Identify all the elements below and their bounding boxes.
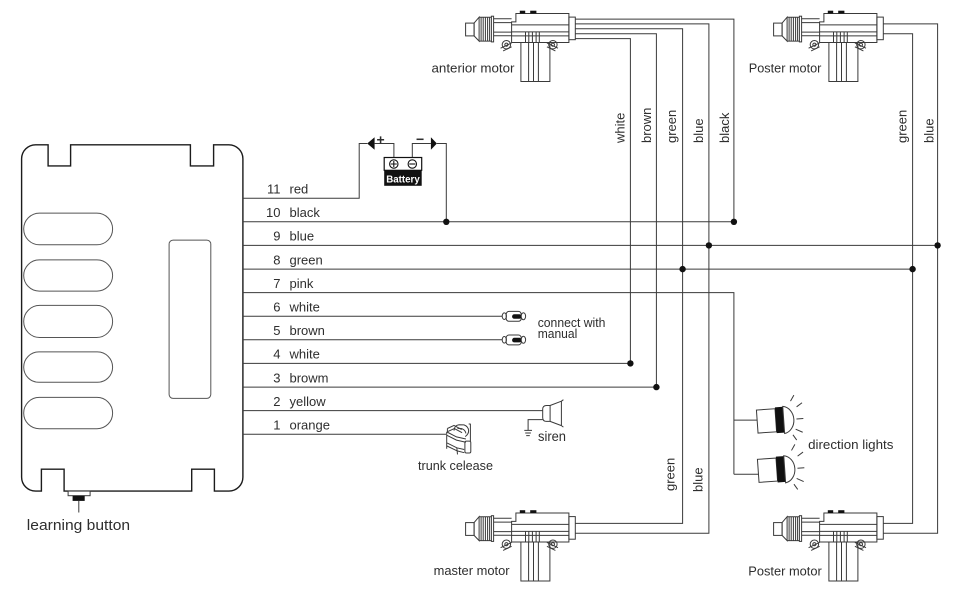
label wire 2: [273, 394, 326, 409]
svg-text:green: green: [664, 110, 679, 143]
poster motor top wire blue: [883, 24, 937, 533]
battery negative lead: [412, 144, 431, 160]
wire 4 white: [243, 362, 631, 364]
wire 10 black: [243, 221, 734, 223]
svg-text:brown: brown: [290, 323, 325, 338]
poster motor bottom: [774, 510, 884, 581]
svg-text:white: white: [289, 347, 320, 362]
slot pill 3: [24, 305, 113, 337]
direction light lamp 1: [756, 395, 805, 443]
poster motor top: [774, 11, 884, 82]
battery positive lead arrow: [367, 137, 374, 149]
wire 6 white: [243, 315, 502, 317]
svg-text:anterior motor: anterior motor: [432, 61, 516, 76]
junction white on wire 4: [627, 360, 633, 366]
svg-text:black: black: [290, 205, 321, 220]
master motor: [466, 510, 576, 581]
poster motor top wire green: [883, 34, 912, 524]
anterior motor wire green: [575, 29, 682, 524]
svg-text:11: 11: [267, 182, 281, 197]
svg-text:learning button: learning button: [27, 518, 130, 534]
svg-text:3: 3: [273, 370, 280, 385]
anterior motor wire white: [575, 39, 630, 364]
svg-text:blue: blue: [691, 467, 706, 492]
battery terminal plus: [390, 160, 398, 168]
svg-text:8: 8: [273, 252, 280, 267]
battery negative lead arrow: [431, 137, 437, 149]
label wire 9: [273, 229, 314, 244]
connector on wire 6: [502, 311, 525, 321]
slot pill 1: [24, 213, 113, 245]
svg-text:green: green: [663, 458, 678, 491]
slot pill 5: [24, 397, 113, 428]
siren ground: [524, 420, 542, 436]
junction right blue on wire 9: [934, 242, 940, 248]
junction green on wire 8: [679, 266, 685, 272]
svg-text:9: 9: [273, 229, 280, 244]
control unit box: [22, 145, 243, 491]
junction brown on wire 3: [653, 384, 659, 390]
svg-text:blue: blue: [290, 229, 315, 244]
wire 7 pink: [243, 293, 734, 475]
svg-text:green: green: [895, 110, 910, 143]
svg-text:master motor: master motor: [434, 563, 511, 578]
svg-text:red: red: [290, 182, 309, 197]
anterior motor wire brown: [575, 34, 656, 387]
svg-text:white: white: [289, 300, 320, 315]
learning button: [68, 491, 90, 512]
svg-text:orange: orange: [290, 418, 330, 433]
wire 3 browm: [243, 386, 657, 388]
label wire 10: [266, 205, 320, 220]
svg-text:2: 2: [273, 394, 280, 409]
svg-text:+: +: [377, 132, 385, 148]
svg-text:siren: siren: [538, 429, 566, 444]
svg-text:10: 10: [266, 205, 280, 220]
battery body: [384, 158, 422, 186]
svg-text:yellow: yellow: [290, 394, 327, 409]
wire 5 brown: [243, 339, 502, 341]
svg-text:1: 1: [273, 418, 280, 433]
label wire 7: [273, 276, 314, 291]
svg-text:6: 6: [273, 300, 280, 315]
svg-text:7: 7: [273, 276, 280, 291]
anterior motor wire blue: [575, 24, 709, 533]
label wire 5: [273, 323, 325, 338]
svg-text:−: −: [416, 131, 424, 147]
svg-text:Poster motor: Poster motor: [748, 563, 822, 578]
label wire 4: [273, 347, 320, 362]
wire 8 green: [243, 268, 913, 270]
svg-text:4: 4: [273, 347, 280, 362]
svg-text:brown: brown: [639, 108, 654, 143]
trunk release actuator: [447, 424, 471, 454]
svg-text:blue: blue: [691, 118, 706, 143]
svg-text:manual: manual: [538, 326, 578, 341]
wire 9 blue: [243, 244, 938, 246]
connector on wire 5: [502, 335, 525, 345]
siren: [543, 400, 564, 427]
label wire 8: [273, 252, 322, 267]
label wire 11: [267, 182, 308, 197]
svg-text:Battery: Battery: [386, 173, 420, 185]
wire 1 orange: [243, 433, 446, 435]
wire 2 yellow: [243, 410, 543, 412]
slot pill 2: [24, 260, 113, 291]
svg-text:black: black: [717, 112, 732, 143]
anterior motor: [466, 11, 576, 82]
svg-text:5: 5: [273, 323, 280, 338]
battery terminal minus: [408, 160, 416, 168]
junction battery negative on wire 10: [443, 219, 449, 225]
battery positive lead: [375, 144, 394, 160]
label wire 3: [273, 370, 328, 385]
svg-text:browm: browm: [290, 370, 329, 385]
direction light lamp 2: [757, 444, 806, 492]
connector slot rectangle: [169, 240, 211, 398]
svg-text:direction lights: direction lights: [808, 437, 894, 452]
anterior motor wire black: [575, 19, 734, 222]
label wire 1: [273, 418, 330, 433]
direction lights feed upper: [734, 419, 757, 421]
label wire 6: [273, 300, 320, 315]
wire 11 red: [243, 144, 367, 199]
svg-text:green: green: [290, 252, 323, 267]
battery negative lead to wire 10: [437, 144, 446, 222]
svg-text:pink: pink: [290, 276, 314, 291]
slot pill 4: [24, 352, 113, 382]
svg-text:blue: blue: [922, 118, 937, 143]
direction lights feed lower: [734, 473, 758, 475]
junction right green on wire 8: [909, 266, 915, 272]
svg-text:Poster motor: Poster motor: [749, 61, 822, 76]
junction black on wire 10: [731, 219, 737, 225]
junction blue on wire 9: [706, 242, 712, 248]
svg-text:white: white: [613, 113, 628, 144]
svg-text:trunk celease: trunk celease: [418, 458, 493, 473]
